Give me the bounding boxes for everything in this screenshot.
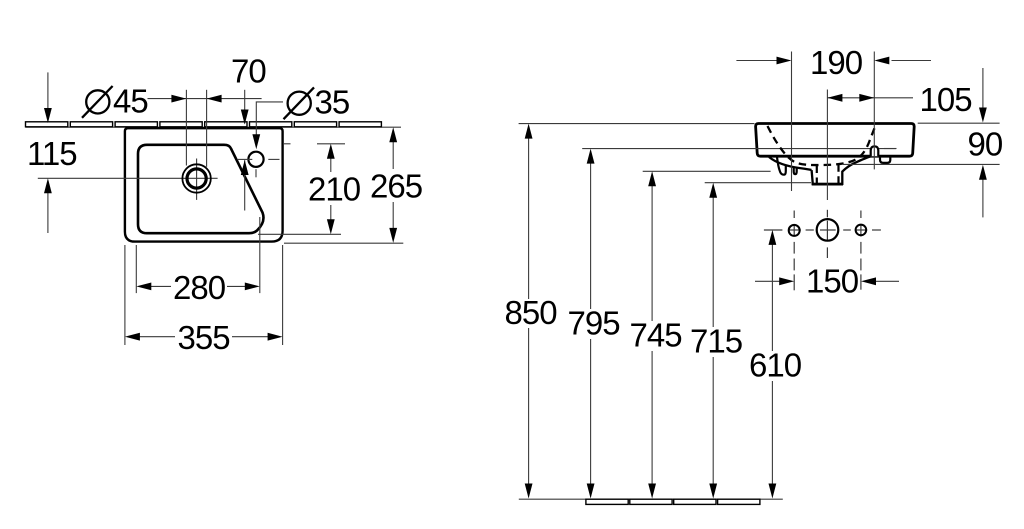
extension line 715 (705, 182, 811, 184)
hidden drain pipe dashed lines (816, 166, 818, 183)
svg-text:745: 745 (630, 317, 682, 354)
svg-text:70: 70 (231, 53, 266, 90)
drain stub bottom plate (812, 183, 843, 186)
dimension Ø45 line and arrows (148, 90, 262, 167)
drain hole outer circle (182, 164, 210, 192)
basin centreline (826, 90, 828, 201)
svg-text:150: 150 (806, 262, 859, 299)
fixing holes centreline horizontal (764, 229, 881, 231)
basin rim front outline (756, 124, 915, 157)
left fixing hole (789, 225, 800, 236)
right fixing hole centreline vertical (860, 211, 862, 290)
dimension 150 lines and arrows (755, 280, 780, 282)
extension line 745 (643, 170, 771, 172)
floor line (519, 498, 783, 500)
drain crosshair horizontal (also 115 extension line) (38, 177, 218, 179)
drain stub outline (812, 156, 871, 184)
left fixing tab (777, 157, 786, 175)
svg-text:280: 280 (173, 269, 226, 306)
svg-text:190: 190 (810, 44, 863, 81)
dimension 115 lines and arrows (47, 72, 49, 111)
svg-text:210: 210 (308, 171, 361, 208)
drain hole front (817, 219, 839, 241)
dimension 105 lines and arrows (827, 97, 874, 99)
svg-text:105: 105 (920, 81, 972, 118)
dimension 90 lines and arrows (982, 68, 984, 109)
dimension 715 line (712, 196, 714, 327)
dimension 265 lines and arrows (284, 242, 403, 244)
faucet hole circle (248, 152, 263, 167)
svg-text:115: 115 (27, 135, 77, 172)
dimension Ø45 label (82, 83, 148, 120)
svg-text:610: 610 (749, 347, 802, 384)
svg-text:850: 850 (505, 294, 558, 331)
drain crosshair vertical (196, 159, 198, 200)
small notch under bowl (794, 167, 797, 174)
faucet hole centerline dashes (238, 158, 252, 160)
svg-text:35: 35 (315, 84, 350, 121)
basin outer outline (125, 128, 283, 241)
dimension 355 lines and arrows (124, 245, 126, 345)
dimension 90 extension lines (918, 122, 1000, 124)
basin inner bowl (138, 145, 263, 233)
svg-text:715: 715 (690, 323, 742, 360)
underside bowl curve (769, 157, 812, 170)
dimension Ø35 label (284, 84, 350, 121)
extension line 795 (tap centre level) (582, 148, 896, 150)
svg-text:265: 265 (370, 168, 422, 205)
svg-text:355: 355 (178, 319, 230, 356)
hidden bowl dashed outline (768, 126, 876, 165)
dimension 610 line (771, 244, 773, 352)
dimension 210 lines and arrows (284, 143, 291, 145)
svg-text:90: 90 (968, 126, 1003, 163)
drain hole inner circle (187, 169, 206, 188)
right fixing hole (856, 225, 867, 236)
tap hole side tick (884, 148, 897, 150)
190 left extension line (791, 52, 793, 192)
right fixing tab (880, 156, 890, 163)
wall line (26, 126, 402, 128)
floor hatch segments (586, 499, 760, 504)
dimension 795 line (590, 162, 592, 309)
wall hatch segments (26, 122, 382, 127)
dimension 850 line (528, 137, 530, 299)
left fixing hole centreline vertical (793, 211, 795, 291)
dimension Ø35 leader (256, 102, 283, 136)
svg-text:45: 45 (113, 83, 148, 120)
dimension 70 lines and arrows (244, 90, 246, 124)
dimension 280 lines and arrows (135, 245, 137, 293)
dimension 745 line (651, 185, 653, 322)
190/105 right extension line (tap centreline) (873, 52, 875, 170)
big hole centreline vertical dashed (826, 210, 828, 258)
extension line 850 (rim top level) (519, 123, 755, 125)
tap hole front view (871, 146, 879, 156)
svg-text:795: 795 (568, 305, 620, 342)
dimension 190 lines and arrows (736, 60, 777, 62)
